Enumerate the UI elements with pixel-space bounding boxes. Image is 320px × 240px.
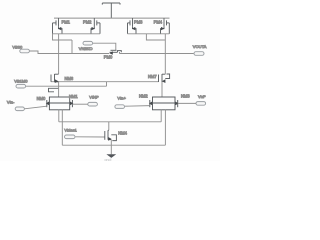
wire Vbias1 to NM4 gate (76, 136, 105, 138)
arrow NM4 source (108, 137, 111, 141)
power vdd symbol (102, 3, 120, 18)
wire cascode gate rail (51, 81, 159, 83)
input pair right box NM2 NM3 (150, 97, 178, 110)
svg-text:VINP: VINP (89, 94, 99, 99)
svg-text:NM7: NM7 (148, 74, 157, 79)
wire VINP to NM1 gate (72, 103, 87, 105)
wire VOUTA (165, 53, 193, 55)
arrow NM0 (46, 102, 49, 106)
input pair left box NM0 NM1 (47, 97, 73, 110)
transistor PM2 (91, 18, 100, 34)
svg-text:gnd!: gnd! (105, 158, 112, 161)
arrow PM1 source (58, 27, 61, 30)
svg-text:VOUTA: VOUTA (193, 44, 207, 49)
wire NM7 drain from VOUT node (164, 54, 166, 75)
transistor PM4 (161, 18, 170, 34)
wire VIN+ to NM2 gate (125, 105, 150, 108)
wire top rail VDD (54, 17, 170, 19)
wire left pair tail (58, 110, 60, 122)
wire NM7 source to pair (161, 82, 163, 97)
svg-text:PM2: PM2 (83, 20, 92, 25)
svg-text:NM1: NM1 (69, 94, 78, 99)
svg-text:Vbias1: Vbias1 (64, 127, 77, 132)
wire VIN- to NM0 gate (24, 106, 46, 109)
wire bias jog up (106, 82, 108, 87)
svg-text:PM1: PM1 (62, 20, 71, 25)
svg-text:NM4: NM4 (118, 130, 127, 135)
svg-text:PM3: PM3 (134, 20, 143, 25)
svg-text:NM2: NM2 (139, 94, 148, 99)
wire left mirror gate bus (53, 33, 101, 35)
wire NM4 source to ground (110, 140, 112, 155)
svg-text:NM6: NM6 (65, 76, 74, 81)
arrow NM2 (149, 102, 152, 106)
wire tail rail (59, 121, 161, 123)
svg-text:PM0: PM0 (104, 54, 113, 59)
svg-text:VnP: VnP (198, 94, 206, 99)
node VINP pin (88, 102, 98, 106)
node VIN- pin (15, 107, 24, 111)
node VINB pin (196, 102, 206, 106)
transistor PM3 (128, 18, 137, 34)
ground symbol (106, 154, 116, 158)
svg-text:VB30: VB30 (12, 44, 23, 49)
transistor NM7 (159, 74, 170, 82)
wire VN3KO to PM0 gate (93, 43, 116, 50)
node VB30 pin (20, 49, 30, 53)
wire right pair bulk down (164, 110, 166, 145)
wire right mirror lower bus (146, 34, 165, 40)
transistor NM4 tail (105, 130, 117, 140)
node Vbias1 pin (65, 135, 76, 139)
svg-text:NM0: NM0 (37, 96, 46, 101)
arrow PM4 source (161, 27, 164, 30)
svg-text:VIn+: VIn+ (117, 96, 126, 101)
wire right main vertical upper (164, 34, 166, 54)
wire right pair tail (160, 110, 162, 122)
wire right mirror gate bus (128, 33, 170, 35)
svg-text:VN3KO: VN3KO (79, 46, 93, 51)
arrow NM6 source (55, 79, 59, 83)
svg-text:PM4: PM4 (154, 20, 163, 25)
wire left mirror output down to NM6 (58, 34, 60, 74)
arrow NM3 (175, 102, 178, 106)
wire left pair bulk down (61, 110, 63, 145)
transistor PM1 (53, 18, 63, 34)
svg-text:VIn-: VIn- (7, 99, 15, 104)
arrow PM0 source (109, 51, 113, 55)
wire VINB to NM3 gate (178, 102, 196, 104)
wire VB1M0 bias lower (26, 85, 107, 87)
node VN3KO pin (83, 41, 93, 45)
transistor NM6 (49, 74, 59, 92)
arrow NM1 (70, 102, 73, 106)
wire left mirror tap down (71, 40, 73, 54)
svg-text:VB1M0: VB1M0 (14, 79, 28, 84)
node VB1M0 pin (16, 84, 26, 88)
arrow PM2 source (92, 27, 95, 30)
arrow PM3 source (132, 27, 135, 30)
wire VB30 to PM0 (30, 51, 110, 54)
wire left mirror lower bus (53, 34, 73, 40)
wire NM6 source to pair (58, 82, 60, 97)
wire NM4 drain tap (108, 122, 110, 130)
wire bulk return rail (62, 144, 165, 146)
wire PM0 drain to right vertical (120, 53, 166, 55)
node VIN+ pin (115, 105, 125, 109)
node VOUTA pin (194, 52, 204, 56)
transistor PM0 (horizontal) (110, 50, 122, 53)
svg-text:NM3: NM3 (181, 94, 190, 99)
arrow NM7 source (162, 79, 166, 83)
